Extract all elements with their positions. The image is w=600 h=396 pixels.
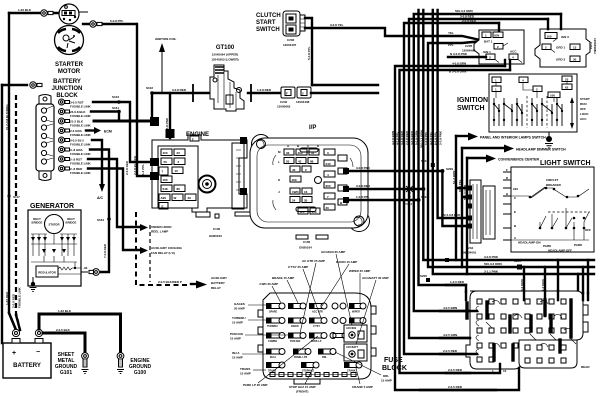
node S204 <box>431 163 435 167</box>
wire fusible link dashed vertical <box>16 95 20 330</box>
battery posts <box>12 339 20 344</box>
svg-text:62: 62 <box>565 86 569 90</box>
ignition switch box <box>489 23 577 132</box>
svg-text:IGN 1: IGN 1 <box>483 50 491 54</box>
svg-text:60-3 YEL: 60-3 YEL <box>458 179 462 192</box>
svg-text:BRIDGE: BRIDGE <box>32 221 43 225</box>
arrow headlamp dimmer switch <box>462 147 504 149</box>
svg-text:GT100: GT100 <box>216 45 235 51</box>
A/C dashed box <box>136 212 189 285</box>
svg-text:15 AMP: 15 AMP <box>230 337 241 341</box>
svg-text:400: 400 <box>298 151 303 155</box>
svg-text:CLUTCH: CLUTCH <box>256 13 281 19</box>
fuse TCA <box>349 318 366 329</box>
node S164 <box>107 217 111 221</box>
fuse rows <box>266 303 367 377</box>
svg-text:RUN: RUN <box>580 102 587 106</box>
wire 5-0.8 GRN bundle <box>419 10 467 285</box>
main wire 3-0.8 RED <box>152 92 218 94</box>
terminal row 3 <box>59 118 65 124</box>
arrow auxiliary battery relay <box>191 283 196 285</box>
wire row4 to ECM arrow <box>86 129 94 131</box>
svg-text:BRAKE 15 AMP: BRAKE 15 AMP <box>272 276 294 280</box>
svg-text:FUSIBLE LINK: FUSIBLE LINK <box>70 124 91 128</box>
svg-text:FUSE: FUSE <box>384 357 403 364</box>
resistor zigzag <box>58 267 75 270</box>
svg-text:IGN: IGN <box>494 34 499 38</box>
light switch box <box>511 167 594 252</box>
svg-text:2-0.8 BLK/RG: 2-0.8 BLK/RG <box>133 155 137 175</box>
generator box <box>28 210 81 286</box>
wire 1-3.0 RED to rear connector <box>446 285 466 292</box>
svg-text:YEL: YEL <box>448 31 454 35</box>
fuse AHD <box>288 303 306 309</box>
node S205 lower <box>426 278 430 282</box>
svg-text:S294: S294 <box>421 195 428 199</box>
svg-text:3-0.8 RED: 3-0.8 RED <box>172 88 187 92</box>
svg-text:ACC: ACC <box>580 117 587 121</box>
svg-text:4-0.8 BRN: 4-0.8 BRN <box>452 62 466 66</box>
svg-text:240: 240 <box>513 187 518 191</box>
svg-text:FUSIBLE LINK: FUSIBLE LINK <box>70 171 91 175</box>
svg-text:1-0.8 PPL: 1-0.8 PPL <box>356 195 370 199</box>
fuse TURN/BU <box>266 318 285 329</box>
fuse spare row2 <box>332 318 346 324</box>
terminal row 5 <box>59 137 65 143</box>
svg-text:AUXILIARY: AUXILIARY <box>211 276 227 280</box>
fuse RADIO <box>288 318 306 329</box>
fuse CTSY <box>309 318 327 329</box>
svg-text:2-0.5 RED: 2-0.5 RED <box>12 293 16 308</box>
svg-text:30: 30 <box>573 58 577 62</box>
svg-text:+: + <box>12 350 16 357</box>
relay ACC/IGN <box>344 325 367 342</box>
svg-text:5-0.8 PPL: 5-0.8 PPL <box>110 19 124 23</box>
svg-text:START: START <box>580 97 590 101</box>
wires C210 top feeds <box>548 14 561 29</box>
svg-text:F: F <box>286 92 288 96</box>
svg-text:I/P: I/P <box>309 125 316 131</box>
starter motor body circle <box>55 26 84 55</box>
svg-text:C210: C210 <box>589 42 593 50</box>
svg-text:2-0.5 BLK: 2-0.5 BLK <box>56 328 71 332</box>
svg-text:160: 160 <box>163 178 168 182</box>
svg-text:F: F <box>506 168 508 172</box>
svg-text:4 WD 30 AMP: 4 WD 30 AMP <box>259 282 278 286</box>
connector ring on starter feed <box>41 10 53 16</box>
wire 4-0.8 YEL bundle <box>433 10 594 274</box>
svg-text:TRANS: TRANS <box>240 367 250 371</box>
rear feed 2-0.5 RED 2 <box>446 364 500 373</box>
arrow convenience center <box>467 157 486 159</box>
diodes row2 <box>42 249 66 253</box>
svg-text:BATTERY: BATTERY <box>13 363 41 369</box>
svg-text:LOCK: LOCK <box>580 112 589 116</box>
terminal row 6 <box>59 147 65 153</box>
svg-text:AUXILIARY COOLING: AUXILIARY COOLING <box>151 246 183 250</box>
rear connector terminal squares row1 <box>477 299 566 363</box>
svg-text:IGN 3: IGN 3 <box>561 35 569 39</box>
svg-text:1-32 BLK: 1-32 BLK <box>18 8 32 12</box>
svg-text:RADIO 10 AMP: RADIO 10 AMP <box>336 260 357 264</box>
svg-text:CONVENIENCE CENTER: CONVENIENCE CENTER <box>498 158 540 162</box>
svg-text:43: 43 <box>292 168 296 172</box>
svg-text:1-32 BLK: 1-32 BLK <box>58 309 72 313</box>
svg-text:BREAKER: BREAKER <box>546 183 562 187</box>
sheet metal ground bolt G101 <box>82 353 89 374</box>
svg-text:240: 240 <box>326 162 331 166</box>
svg-text:INJ A: INJ A <box>270 356 276 359</box>
svg-text:450: 450 <box>312 210 317 214</box>
wire row2 joins row3 <box>91 112 119 122</box>
svg-text:ACC/BATT: ACC/BATT <box>346 346 359 349</box>
regulator box <box>36 266 58 277</box>
wire 2-0.8 PNK bundle to C234 <box>442 171 470 226</box>
svg-text:1-3 PPL: 1-3 PPL <box>141 164 145 175</box>
svg-text:S205: S205 <box>514 259 521 263</box>
svg-text:G101: G101 <box>60 370 72 376</box>
node S102 <box>150 91 154 95</box>
wire 4-0.8 BRN bundle <box>395 66 505 390</box>
svg-text:S103: S103 <box>112 95 119 99</box>
svg-text:S205: S205 <box>420 274 427 278</box>
relay ACC/BATT <box>344 344 367 361</box>
generator ground <box>30 277 37 292</box>
svg-text:160: 160 <box>292 178 297 182</box>
svg-text:10: 10 <box>503 369 507 373</box>
rear connector outline <box>466 291 588 369</box>
svg-text:SPARE: SPARE <box>269 311 277 314</box>
light switch internal contacts <box>511 188 589 240</box>
svg-text:GN20163: GN20163 <box>209 234 222 238</box>
svg-text:4-0.5 GRN: 4-0.5 GRN <box>443 333 457 337</box>
terminal row 8 <box>59 166 65 172</box>
svg-text:500-3.3 ORN: 500-3.3 ORN <box>484 262 502 266</box>
svg-text:500-3.3 ORN: 500-3.3 ORN <box>419 130 423 148</box>
terminal row 2 <box>59 109 65 115</box>
svg-text:FUSIBLE LINK: FUSIBLE LINK <box>70 143 91 147</box>
svg-text:STATOR: STATOR <box>48 223 59 227</box>
svg-text:PCM IGN: PCM IGN <box>290 340 301 343</box>
connector C203 <box>297 87 311 98</box>
svg-text:1-32 RED: 1-32 RED <box>5 291 9 305</box>
engine boss circle <box>199 176 216 193</box>
wire 3-0.8 RED bundle to C210 <box>409 19 548 338</box>
wire row3 21-2 BLK to engine <box>94 120 150 123</box>
arrow panel and interior lamps switch <box>456 135 468 137</box>
svg-text:2-0.5 BLK/RED P: 2-0.5 BLK/RED P <box>158 280 182 284</box>
wire row1 to engine via right vertical <box>93 102 150 162</box>
svg-text:43: 43 <box>298 160 302 164</box>
svg-text:2-0.8 PNK: 2-0.8 PNK <box>438 130 442 145</box>
wire 5-0.8 PPL from starter to right <box>83 23 136 25</box>
svg-text:99034001: 99034001 <box>463 251 477 255</box>
rear connector plugged wire bars <box>467 300 571 360</box>
svg-text:61-3 BRN: 61-3 BRN <box>452 171 456 184</box>
fuse TRANS <box>266 362 285 373</box>
svg-text:PARK LP 20 AMP: PARK LP 20 AMP <box>243 383 267 387</box>
svg-text:S102: S102 <box>146 86 153 90</box>
wire row6 down to generator regulator <box>90 150 109 273</box>
svg-text:2-0.5 RED: 2-0.5 RED <box>443 349 458 353</box>
svg-text:1WD: 1WD <box>292 190 300 194</box>
svg-text:BRIDGE: BRIDGE <box>66 221 77 225</box>
svg-text:2-0.8 RED: 2-0.8 RED <box>125 160 129 175</box>
fuse DRL <box>318 349 336 360</box>
rear connector hooks <box>476 300 576 355</box>
rear feed 4-0.5 GRN <box>440 337 470 339</box>
svg-text:1-0.8 RED: 1-0.8 RED <box>257 88 272 92</box>
svg-text:6-0.8 PPL: 6-0.8 PPL <box>434 131 438 145</box>
svg-text:H: H <box>506 192 508 196</box>
connector ring on junction feed <box>30 82 42 88</box>
svg-text:S117: S117 <box>13 195 20 199</box>
fuse PANEL LPS <box>293 349 311 360</box>
wire 3-0.8 PNK drop <box>169 93 171 138</box>
svg-text:C100: C100 <box>213 227 221 231</box>
svg-text:FUSIBLE LINK: FUSIBLE LINK <box>70 152 91 156</box>
node S103 <box>117 100 121 104</box>
svg-text:C100: C100 <box>303 240 311 244</box>
I/P top bottom tabs <box>296 235 308 239</box>
svg-text:RELAY: RELAY <box>211 286 221 290</box>
svg-text:−: − <box>36 349 40 356</box>
svg-text:BATTERY: BATTERY <box>53 79 81 85</box>
svg-text:3-0.8 YEL: 3-0.8 YEL <box>330 23 344 27</box>
wire 3-0.8 YEL clutch to C205 <box>305 28 478 40</box>
svg-text:GENERATOR: GENERATOR <box>30 203 74 210</box>
svg-text:500-3 ORN: 500-3 ORN <box>463 185 467 200</box>
svg-text:2-0.8 RED: 2-0.8 RED <box>405 130 409 145</box>
connector C240 <box>281 87 295 98</box>
fuse PCM IGN <box>288 333 306 344</box>
svg-text:S164: S164 <box>97 218 104 222</box>
svg-text:GRD 3: GRD 3 <box>556 58 566 62</box>
engine ground bolt G100 <box>117 353 124 374</box>
I/P inner pin boxes <box>284 149 294 155</box>
engine inner fuse boxes <box>158 146 198 208</box>
svg-text:FUSIBLE LINK: FUSIBLE LINK <box>70 133 91 137</box>
svg-text:31: 31 <box>311 151 315 155</box>
svg-text:12004407: 12004407 <box>283 43 297 47</box>
svg-text:3-0.8 RED: 3-0.8 RED <box>460 15 475 19</box>
wire 2-0.5 BLK to sheet metal ground <box>43 333 85 352</box>
ignition coil arrow <box>161 50 163 93</box>
ignition switch contacts <box>494 98 562 126</box>
svg-text:AC HTR 25 AMP: AC HTR 25 AMP <box>302 259 325 263</box>
svg-text:ACC/IGN: ACC/IGN <box>346 327 356 330</box>
rear feed 2-0.5 RED 3 <box>420 368 519 390</box>
fuse CRANK <box>344 362 362 373</box>
terminal row 7 <box>59 156 65 162</box>
diodes row1 <box>31 237 76 253</box>
bundle rotated labels <box>391 130 442 148</box>
svg-text:A90: A90 <box>161 196 167 200</box>
svg-text:G100: G100 <box>134 370 146 376</box>
wire row7 to under hood reel lamp <box>88 159 140 227</box>
svg-text:3-0.8 PNK: 3-0.8 PNK <box>356 166 371 170</box>
svg-text:10: 10 <box>175 169 179 173</box>
svg-text:100: 100 <box>550 94 555 98</box>
svg-text:4-0.8 YEL: 4-0.8 YEL <box>429 131 433 145</box>
rear feed 2-0.5 RED <box>440 353 477 355</box>
ignition switch ground <box>545 132 553 148</box>
svg-text:PARK: PARK <box>574 243 583 247</box>
svg-text:4-0.8 PPL: 4-0.8 PPL <box>396 131 400 145</box>
svg-text:FAN RELAY (L'9): FAN RELAY (L'9) <box>151 251 175 255</box>
svg-text:START: START <box>256 20 276 26</box>
svg-text:4-0.5 BRN: 4-0.5 BRN <box>443 306 457 310</box>
svg-text:SWITCH: SWITCH <box>457 105 485 112</box>
svg-text:C'TSY 25 AMP: C'TSY 25 AMP <box>288 265 308 269</box>
svg-text:C205: C205 <box>465 44 473 48</box>
svg-text:100: 100 <box>547 35 552 39</box>
I/P outline <box>250 135 370 240</box>
light switch pins <box>503 172 511 240</box>
svg-text:F: F <box>192 138 194 142</box>
svg-text:REEL LAMP: REEL LAMP <box>151 230 168 234</box>
engine bottom tab <box>196 212 210 217</box>
svg-text:W: W <box>174 196 177 200</box>
GT100 distributor body <box>210 65 244 111</box>
engine block outline <box>152 135 253 218</box>
svg-text:20 AMP: 20 AMP <box>234 307 245 311</box>
svg-text:30: 30 <box>326 206 330 210</box>
svg-text:BAT 1: BAT 1 <box>484 40 493 44</box>
svg-text:7-0.8 RED: 7-0.8 RED <box>103 243 107 258</box>
svg-text:C234: C234 <box>466 246 474 250</box>
svg-text:MOTOR: MOTOR <box>58 69 81 75</box>
svg-text:248: 248 <box>163 187 168 191</box>
rear internal feed continuations <box>466 291 588 316</box>
wire 500-3.3 ORN bundle 2 <box>423 10 594 260</box>
svg-text:PARK: PARK <box>543 244 552 248</box>
svg-text:33: 33 <box>286 151 290 155</box>
svg-text:3-0.8 PNK: 3-0.8 PNK <box>484 255 499 259</box>
svg-text:C240: C240 <box>280 100 288 104</box>
svg-text:420: 420 <box>300 210 305 214</box>
wire row5 down to A/C <box>92 140 102 184</box>
connector tick left of GT100 <box>192 84 194 102</box>
fuse ACC HTR <box>309 303 327 314</box>
svg-text:3-0.8 RED: 3-0.8 RED <box>410 130 414 145</box>
svg-text:12045202 (LOWER): 12045202 (LOWER) <box>211 58 238 62</box>
wire N 3-0.8 PNK <box>448 56 486 58</box>
battery junction block body <box>36 95 54 181</box>
main wire 1-0.8 RED <box>248 92 281 94</box>
fuse spare top <box>332 303 346 309</box>
junction block terminal rows <box>59 99 92 175</box>
svg-text:88: 88 <box>310 160 314 164</box>
generator output ring connector <box>89 269 99 276</box>
svg-text:1-3.0 RED: 1-3.0 RED <box>450 280 465 284</box>
svg-text:3-0.8 PNK: 3-0.8 PNK <box>165 117 169 132</box>
wire 1-32 BLK battery neg to engine ground <box>39 314 121 352</box>
svg-text:12000663: 12000663 <box>277 105 291 109</box>
wire 6-0.8 PPL bundle to light switch <box>438 10 470 218</box>
svg-text:13: 13 <box>573 46 577 50</box>
wire 500-3.3 ORN bundle to C210 <box>414 14 561 311</box>
svg-text:12064998H: 12064998H <box>593 38 597 54</box>
node S161 <box>117 110 121 114</box>
svg-text:CRANK 5 AMP: CRANK 5 AMP <box>352 385 373 389</box>
svg-text:B 5-0.8 ORN: B 5-0.8 ORN <box>449 70 466 74</box>
svg-text:TURN/BU: TURN/BU <box>232 316 246 320</box>
svg-text:4-0.8 BRN: 4-0.8 BRN <box>391 131 395 145</box>
terminal row 1 <box>59 99 65 105</box>
svg-text:E: E <box>162 205 164 209</box>
wire 4-0.8 PPL bundle <box>400 70 511 373</box>
svg-text:A/C: A/C <box>97 196 104 200</box>
svg-text:3-0.8 RED: 3-0.8 RED <box>356 184 371 188</box>
svg-text:BLOCK: BLOCK <box>56 93 78 99</box>
node S205b <box>445 258 449 262</box>
svg-text:FUSIBLE LINK: FUSIBLE LINK <box>70 105 91 109</box>
svg-text:UNDER HOOD: UNDER HOOD <box>151 225 172 229</box>
wire I/P 3-0.8 RED <box>345 188 423 190</box>
svg-text:S204: S204 <box>421 159 428 163</box>
svg-text:3-1.1 PNK: 3-1.1 PNK <box>484 270 499 274</box>
svg-text:86: 86 <box>177 187 181 191</box>
svg-text:S161: S161 <box>112 106 119 110</box>
connector tick right of GT100 <box>250 84 252 102</box>
svg-text:-33: -33 <box>83 266 88 270</box>
svg-text:FUSIBLE LINK: FUSIBLE LINK <box>70 114 91 118</box>
wire row8 to auxiliary cooling fan relay <box>88 169 140 251</box>
fuse STOP HAZ <box>301 362 319 373</box>
svg-text:15 AMP: 15 AMP <box>232 356 243 360</box>
svg-text:C'TSY: C'TSY <box>313 325 320 328</box>
svg-text:GRD 1: GRD 1 <box>556 46 566 50</box>
fuse INJ A <box>266 349 285 360</box>
svg-text:OFF: OFF <box>580 107 586 111</box>
svg-text:ECM: ECM <box>104 130 112 134</box>
wire solenoid stub right <box>79 11 88 13</box>
svg-text:23: 23 <box>177 151 181 155</box>
svg-text:5-0.8 PPL: 5-0.8 PPL <box>307 46 311 60</box>
svg-text:(FRONT): (FRONT) <box>296 390 308 394</box>
svg-text:DRL: DRL <box>383 374 389 378</box>
bus bar <box>268 374 358 376</box>
svg-text:3-0.8 RED: 3-0.8 RED <box>400 130 404 145</box>
svg-text:23: 23 <box>565 78 569 82</box>
svg-text:2-0.5 RED: 2-0.5 RED <box>448 368 463 372</box>
svg-text:PANEL LPS: PANEL LPS <box>294 356 308 359</box>
svg-text:WIPER: WIPER <box>352 311 360 314</box>
fuse PARK LP <box>309 333 327 344</box>
svg-text:CIRCUIT: CIRCUIT <box>546 178 558 182</box>
wire to junction block top <box>2 84 27 86</box>
svg-text:FUSIBLE LINK: FUSIBLE LINK <box>70 162 91 166</box>
splice Y101 <box>406 186 413 192</box>
svg-text:15 AMP: 15 AMP <box>381 379 392 383</box>
svg-text:C202: C202 <box>287 38 295 42</box>
clutch start switch connector <box>283 11 305 36</box>
svg-text:15 AMP: 15 AMP <box>232 321 243 325</box>
svg-text:ACC: ACC <box>510 50 517 54</box>
svg-text:HEADLAMP-OFF: HEADLAMP-OFF <box>548 249 572 253</box>
svg-text:TURN/BU: TURN/BU <box>267 325 278 328</box>
svg-text:BLOCK: BLOCK <box>382 365 407 372</box>
fuse WIPER <box>349 303 366 314</box>
svg-text:15 AMP: 15 AMP <box>240 372 251 376</box>
svg-text:STARTER: STARTER <box>55 62 84 68</box>
diode bridge network <box>31 233 77 262</box>
wire clutch to ppl vertical <box>305 18 312 85</box>
stator circle <box>45 215 64 234</box>
svg-text:FUSIBLE LINK: FUSIBLE LINK <box>18 287 22 308</box>
svg-text:29: 29 <box>188 196 192 200</box>
